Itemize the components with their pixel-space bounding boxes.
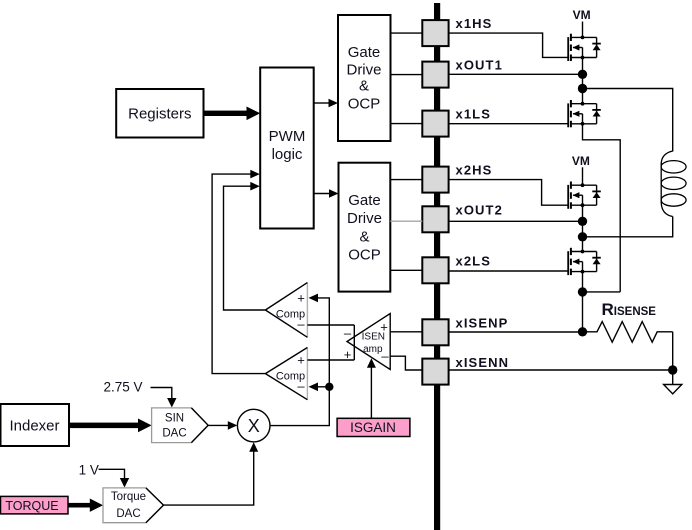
svg-text:Registers: Registers xyxy=(128,106,191,123)
svg-text:VM: VM xyxy=(573,8,591,22)
pin square xISENN xyxy=(422,359,448,385)
wire x2LS pin to Q4 gate xyxy=(449,270,569,272)
wire gate drive 1 to x1LS xyxy=(391,123,423,125)
wire gate drive 2 to x2HS xyxy=(390,179,422,181)
gate drive block 1 xyxy=(338,15,391,141)
pin square xOUT2 xyxy=(422,206,448,232)
comparator U-COMP2 xyxy=(265,348,307,400)
svg-text:DAC: DAC xyxy=(162,428,186,440)
svg-text:1 V: 1 V xyxy=(79,462,99,477)
indexer block xyxy=(1,404,70,446)
svg-text:amp: amp xyxy=(363,344,383,355)
svg-text:x1LS: x1LS xyxy=(456,107,491,122)
wire gate drive 2 to x2LS xyxy=(390,269,422,271)
svg-text:+: + xyxy=(297,291,305,306)
ground symbol xyxy=(664,370,682,394)
svg-text:x1HS: x1HS xyxy=(456,16,493,31)
wire xOUT1 pin to half-bridge 1 output node xyxy=(449,73,583,75)
node xISENP junction dot xyxy=(578,327,587,336)
pin square xISENP xyxy=(422,319,448,345)
node winding tap 2 junction dot xyxy=(578,232,587,241)
SIN DAC converter xyxy=(152,408,209,443)
node xISENN junction dot xyxy=(668,365,677,374)
wire gate drive 2 to xOUT2 gray xyxy=(390,220,422,222)
svg-text:2.75 V: 2.75 V xyxy=(104,380,143,395)
PWM logic block xyxy=(260,68,314,229)
pin square x2HS xyxy=(422,167,448,193)
pin square x1LS xyxy=(422,111,448,137)
wire x1HS pin to Q1 gate xyxy=(449,33,569,57)
torque DAC converter xyxy=(103,488,164,523)
svg-text:Torque: Torque xyxy=(111,491,146,503)
wire 2.75V reference into SIN DAC with arrowhead xyxy=(151,388,177,408)
svg-text:Gate: Gate xyxy=(348,44,381,61)
svg-text:OCP: OCP xyxy=(348,247,381,264)
wire comp2 output to PWM logic with arrowhead xyxy=(212,170,265,374)
svg-text:Gate: Gate xyxy=(348,192,381,209)
wire xOUT2 pin to half-bridge 2 output node xyxy=(449,220,583,222)
wire PWM to gate drive 1 with arrowhead xyxy=(314,99,338,108)
svg-text:–: – xyxy=(381,348,389,363)
wire sense rail joins low-side node xyxy=(583,291,621,293)
svg-text:–: – xyxy=(297,316,305,331)
svg-text:Drive: Drive xyxy=(346,62,381,79)
wire 1V reference into Torque DAC with arrowhead xyxy=(99,469,130,487)
svg-text:–: – xyxy=(344,325,352,340)
svg-text:TORQUE: TORQUE xyxy=(5,499,58,513)
svg-text:+: + xyxy=(297,353,305,368)
pin square x1HS xyxy=(422,20,448,46)
wire ISEN minus input to xISENN pin xyxy=(390,356,422,370)
wire xISENP pin to sense node xyxy=(449,331,583,333)
wire Q1 source to Q2 drain xyxy=(582,58,584,104)
pin square x2LS xyxy=(422,257,448,283)
svg-text:Indexer: Indexer xyxy=(9,418,59,435)
svg-text:RISENSE: RISENSE xyxy=(602,300,657,319)
comparator U-COMP1 xyxy=(265,283,307,338)
resistor RISENSE zigzag xyxy=(583,322,673,343)
wire VM2 to Q3 drain xyxy=(582,167,584,185)
wire resistor to ground node xyxy=(672,332,674,370)
wire xISENN pin to ground node xyxy=(449,369,673,371)
wire ISEN plus input to xISENP pin xyxy=(390,331,422,333)
wire node to inductor bottom xyxy=(583,217,673,237)
svg-text:xISENN: xISENN xyxy=(456,355,510,370)
wire PWM to gate drive 2 with arrowhead xyxy=(314,189,339,198)
wire ISEN outputs node to comparator inputs xyxy=(307,325,354,360)
svg-text:logic: logic xyxy=(272,146,303,163)
thick bus arrow TORQUE to Torque DAC xyxy=(68,499,103,512)
wire node to inductor top xyxy=(583,89,673,152)
svg-text:ISGAIN: ISGAIN xyxy=(350,420,396,435)
svg-text:SIN: SIN xyxy=(165,413,184,425)
node low-side common junction dot xyxy=(578,287,587,296)
op-amp U-ISEN current sense amp xyxy=(344,314,390,370)
label TORQUE pink tag xyxy=(1,496,69,514)
svg-text:VM: VM xyxy=(572,154,590,168)
registers block U-REG xyxy=(116,89,203,138)
svg-text:DAC: DAC xyxy=(116,508,140,520)
svg-text:x2HS: x2HS xyxy=(456,163,493,178)
svg-text:xOUT1: xOUT1 xyxy=(456,58,503,73)
node winding tap 1 junction dot xyxy=(578,84,587,93)
wire x1LS pin to Q2 gate xyxy=(449,123,569,125)
svg-text:Drive: Drive xyxy=(347,210,382,227)
svg-text:ISEN: ISEN xyxy=(362,332,385,343)
transistor Q4 low-side FET bridge 2 xyxy=(568,248,601,275)
multiplier X xyxy=(237,409,270,442)
node xOUT1 junction dot xyxy=(578,70,587,79)
wire Q4 source to sense node xyxy=(582,272,584,332)
wire gate drive 1 to xOUT1 xyxy=(391,74,423,76)
thick bus arrow Indexer to SIN DAC xyxy=(69,419,152,433)
svg-text:PWM: PWM xyxy=(269,128,306,145)
wire x2HS pin to Q3 gate xyxy=(449,180,569,206)
transistor Q1 high-side FET bridge 1 xyxy=(568,34,601,61)
svg-text:–: – xyxy=(297,379,305,394)
svg-text:xOUT2: xOUT2 xyxy=(456,203,503,218)
svg-text:&: & xyxy=(359,78,369,95)
wire X output up to comparator node with junction dot and arrowheads xyxy=(270,294,333,426)
wire comp1 output to PWM logic with arrowhead xyxy=(224,182,266,310)
wire gate drive 1 to x1HS xyxy=(391,32,423,34)
inductor L motor winding xyxy=(661,151,686,217)
label ISGAIN pink tag xyxy=(337,418,410,436)
gate drive block 2 xyxy=(339,163,391,292)
svg-text:&: & xyxy=(359,228,369,245)
wire Torque DAC to multiplier with arrowhead xyxy=(164,442,259,505)
wire Q2 source down and over to sense rail xyxy=(583,124,621,292)
wire SIN DAC to multiplier with arrowhead xyxy=(208,421,237,430)
wire Q3 source to Q4 drain xyxy=(582,205,584,251)
transistor Q3 high-side FET bridge 2 xyxy=(568,182,601,209)
svg-text:x2LS: x2LS xyxy=(456,254,491,269)
wire VM1 to Q1 drain xyxy=(582,22,584,38)
pin square xOUT1 xyxy=(422,62,448,88)
transistor Q2 low-side FET bridge 1 xyxy=(568,100,601,127)
node xOUT2 junction dot xyxy=(578,217,587,226)
pin bus thick vertical bar xyxy=(434,3,440,530)
svg-text:xISENP: xISENP xyxy=(456,316,509,331)
svg-text:OCP: OCP xyxy=(348,96,381,113)
thick bus arrow Registers to PWM logic xyxy=(204,107,261,121)
wire ISGAIN to ISEN amp with arrowhead xyxy=(367,358,376,418)
svg-text:X: X xyxy=(248,416,260,436)
